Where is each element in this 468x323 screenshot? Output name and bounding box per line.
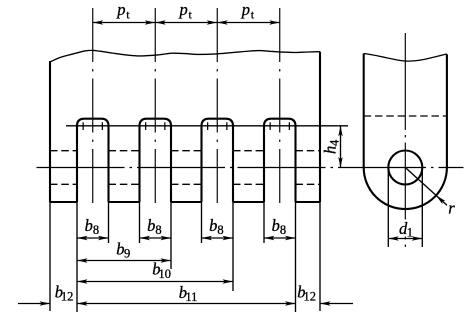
svg-text:h: h: [321, 146, 340, 154]
right view right edge: [446, 54, 448, 167]
label r: [448, 198, 455, 217]
right view vertical centerline: [404, 33, 406, 250]
body break line (wavy top edge): [50, 50, 320, 62]
right view left edge: [363, 54, 365, 168]
right view bottom arc: [364, 168, 447, 210]
dimension b_11: [77, 301, 296, 305]
tooth top tangent tick marks: [83, 122, 289, 130]
tooth 1 outline: [77, 119, 109, 202]
dimension b_8 tooth 3: [202, 236, 234, 240]
svg-text:8: 8: [280, 223, 286, 237]
label p_t (1): [116, 0, 130, 21]
label b_8 (3): [209, 216, 223, 237]
main horizontal centerline: [37, 167, 464, 169]
dimension b_9: [77, 258, 171, 262]
dimension b_8 tooth 1: [77, 236, 109, 240]
roller seat circle: [388, 151, 422, 185]
label b_12 right: [297, 283, 316, 304]
right view hidden dashed line: [364, 115, 447, 117]
svg-text:p: p: [241, 0, 250, 19]
label b_12 left: [55, 283, 74, 304]
svg-text:b: b: [209, 216, 217, 235]
label b_9: [116, 239, 130, 260]
tooth 2 centerline / pitch extension line: [154, 8, 156, 209]
svg-text:8: 8: [217, 223, 223, 237]
svg-text:12: 12: [61, 289, 74, 303]
svg-text:12: 12: [304, 289, 317, 303]
dimension b_8 tooth 4: [264, 236, 296, 240]
dimension line p_t chain: [93, 20, 280, 24]
svg-text:8: 8: [155, 223, 161, 237]
label d_1: [397, 219, 413, 239]
tooth 4 outline: [264, 119, 296, 202]
radius r leader line: [405, 168, 447, 206]
svg-text:b: b: [85, 216, 93, 235]
label b_8 (1): [85, 216, 99, 237]
hidden dashed line lower: [50, 183, 320, 185]
tooth 4 centerline / pitch extension line: [279, 8, 281, 209]
label h_4 (rotated): [321, 139, 342, 154]
dimension d_1: [388, 236, 422, 240]
svg-text:b: b: [147, 216, 155, 235]
tooth 3 centerline / pitch extension line: [216, 8, 218, 209]
svg-text:1: 1: [407, 225, 413, 239]
dimension d_1 extension lines: [388, 171, 422, 247]
tooth 3 outline: [202, 119, 234, 202]
right view break line (wavy top): [364, 54, 447, 62]
svg-text:8: 8: [93, 223, 99, 237]
extension lines below body and teeth: [50, 202, 320, 312]
svg-text:p: p: [116, 0, 125, 19]
dimension b_12 left outside arrow: [18, 301, 50, 305]
svg-text:10: 10: [159, 267, 172, 281]
label b_10: [152, 260, 171, 281]
body bottom edge segments: [50, 201, 320, 203]
tooth 1 centerline / pitch extension line: [92, 8, 94, 209]
label p_t (2): [178, 0, 192, 21]
hidden dashed line upper: [50, 150, 320, 152]
dimension b_10: [77, 279, 233, 283]
tooth top reference line: [66, 125, 348, 127]
dimension b_8 tooth 2: [140, 236, 172, 240]
svg-text:r: r: [448, 198, 455, 217]
tooth 2 outline: [140, 119, 172, 202]
body right edge: [319, 52, 321, 202]
svg-text:p: p: [178, 0, 187, 19]
label b_8 (4): [272, 216, 286, 237]
body left edge: [49, 61, 51, 202]
label b_11: [179, 283, 198, 304]
svg-text:9: 9: [124, 246, 130, 260]
dimension h_4: [338, 126, 342, 168]
label b_8 (2): [147, 216, 161, 237]
dimension b_12 right outside arrow: [320, 301, 353, 305]
svg-text:b: b: [272, 216, 280, 235]
svg-text:4: 4: [328, 139, 342, 146]
label p_t (3): [241, 0, 255, 21]
svg-text:11: 11: [185, 290, 197, 304]
